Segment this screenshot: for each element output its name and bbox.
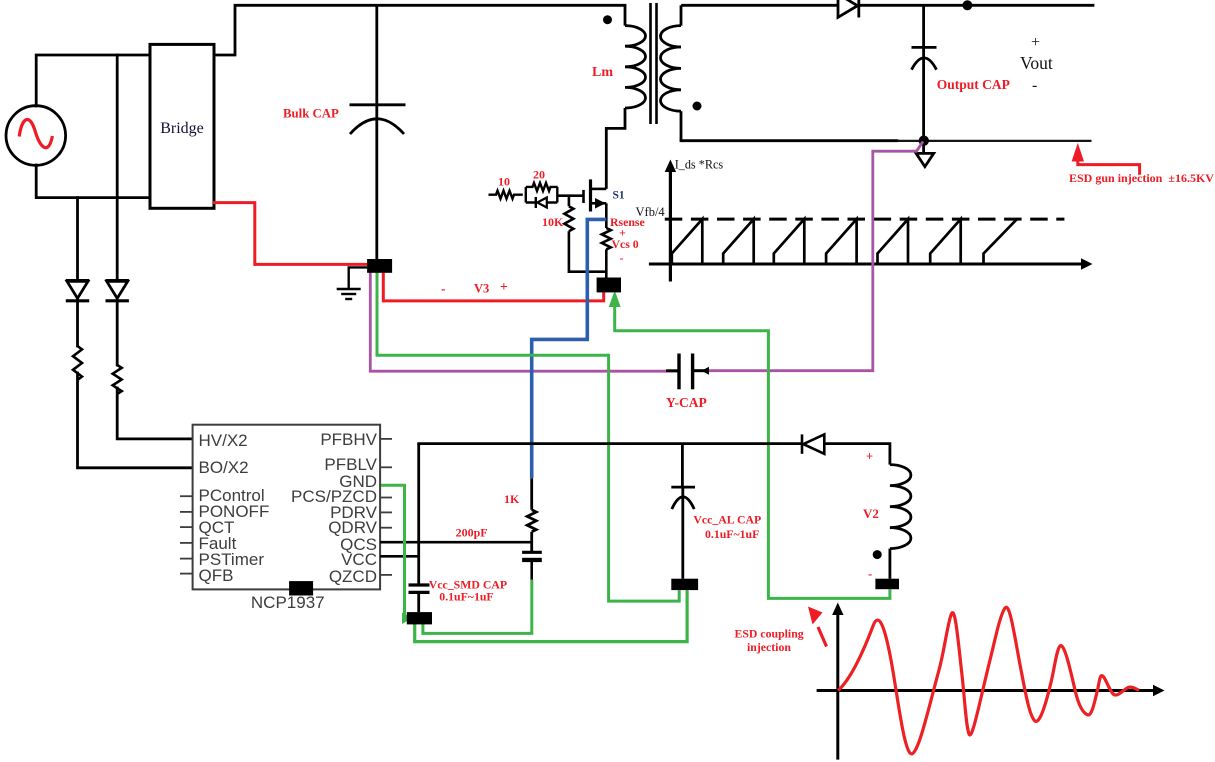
snubber resistor 10 <box>489 191 523 199</box>
wire top rail secondary side <box>683 4 837 7</box>
wire AC bottom to bridge <box>36 165 150 198</box>
snubber parallel R20/diode <box>526 183 558 208</box>
ring wave plot axes <box>817 613 1155 760</box>
svg-text:+: + <box>866 450 873 464</box>
IC pin stubs right <box>380 439 392 575</box>
IC bottom pad <box>289 581 313 595</box>
red wire bridge to bulk pad <box>213 203 367 265</box>
wire diode1 to resistor to BO/X2 <box>76 300 79 346</box>
transformer core <box>651 3 657 124</box>
wire bridge to top rail <box>214 5 625 55</box>
svg-text:-: - <box>620 251 624 265</box>
bridge rectifier <box>150 44 214 208</box>
wire bottom rail secondary <box>681 139 897 142</box>
Y-CAP <box>666 354 709 390</box>
green wire SMD pad to AL pad <box>415 590 687 642</box>
output capacitor <box>912 5 937 140</box>
svg-text:ESD gun injection ±16.5KV: ESD gun injection ±16.5KV <box>1069 171 1214 185</box>
wire VCC vertical <box>417 444 420 585</box>
svg-text:Bulk CAP: Bulk CAP <box>283 107 339 121</box>
svg-text:-: - <box>441 281 446 296</box>
svg-text:Lm: Lm <box>592 65 613 80</box>
svg-text:Vcs 0: Vcs 0 <box>612 237 639 251</box>
svg-text:200pF: 200pF <box>456 526 488 540</box>
Vcc rail top wire <box>417 442 802 445</box>
svg-text:injection: injection <box>747 640 791 654</box>
sawtooth teeth <box>672 219 1017 264</box>
bulk pad ground <box>337 267 367 299</box>
wire AC top to bridge <box>36 55 150 106</box>
svg-text:Vcc_AL CAP: Vcc_AL CAP <box>693 513 761 527</box>
secondary dot <box>693 102 702 111</box>
node dot output gnd <box>919 136 929 146</box>
NCP1937 IC box <box>193 425 381 590</box>
svg-text:HV/X2: HV/X2 <box>199 431 248 450</box>
ground output (triangle) <box>916 141 934 167</box>
svg-text:10K: 10K <box>542 215 564 229</box>
svg-text:QZCD: QZCD <box>329 567 377 586</box>
bulk pad (black rect) <box>367 259 392 273</box>
resistor R_a (left vertical zigzag) <box>73 346 82 380</box>
inductor V2 <box>890 465 911 549</box>
Vcc diode D4 (points left) <box>802 434 824 453</box>
AC sine symbol <box>19 119 52 147</box>
svg-text:1K: 1K <box>504 492 520 506</box>
diode D1 (left) <box>66 281 89 301</box>
green wire Rsense pad to V2 pad <box>615 297 890 598</box>
output diode D3 <box>838 0 859 18</box>
wire tap x117 vertical <box>116 55 119 279</box>
svg-text:-: - <box>868 567 872 581</box>
svg-text:QFB: QFB <box>199 566 234 585</box>
purple wire Y-cap net <box>370 142 923 372</box>
svg-text:ESD coupling: ESD coupling <box>735 627 804 641</box>
svg-text:S1: S1 <box>613 190 625 202</box>
wire diode2 to resistor to HV/X2 <box>116 300 119 365</box>
svg-text:-: - <box>1032 77 1037 94</box>
AL pad <box>671 579 698 590</box>
svg-text:V3: V3 <box>474 282 489 296</box>
MOSFET S1 <box>589 179 592 211</box>
transformer T1 primary <box>606 5 645 189</box>
svg-text:Vout: Vout <box>1020 53 1053 73</box>
resistor R_b (right vertical zigzag) <box>113 365 122 394</box>
IC pin stubs left <box>180 496 193 573</box>
svg-text:10: 10 <box>498 175 510 189</box>
svg-text:0.1uF~1uF: 0.1uF~1uF <box>705 527 759 541</box>
wire diode to V2 <box>824 444 890 465</box>
MOSFET arrow <box>595 198 606 209</box>
transformer T1 secondary <box>660 5 681 140</box>
svg-text:BO/X2: BO/X2 <box>199 458 249 477</box>
dashed Vfb/4 level <box>665 218 1065 221</box>
Rsense pad (black rect) <box>597 278 621 293</box>
resistor 10K <box>564 196 606 272</box>
svg-text:PFBHV: PFBHV <box>320 430 377 449</box>
SMD pad <box>407 612 432 624</box>
green wire GND pin to SMD pad <box>381 485 405 618</box>
node dot top rail <box>962 0 972 10</box>
ESD coupling arrow <box>818 627 827 647</box>
svg-text:20: 20 <box>533 168 545 182</box>
svg-text:Bridge: Bridge <box>160 120 204 137</box>
wire VCC pin <box>380 555 419 558</box>
wire tap x77 vertical <box>76 198 79 279</box>
svg-text:Output CAP: Output CAP <box>937 77 1010 92</box>
svg-text:V2: V2 <box>863 506 879 521</box>
Vcc_SMD capacitor <box>409 585 430 612</box>
resistor 1K <box>527 478 536 552</box>
wire QCS to 200pF <box>380 541 532 544</box>
bulk capacitor <box>350 5 406 259</box>
svg-text:I_ds *Rcs: I_ds *Rcs <box>675 158 724 172</box>
resistor Rsense <box>602 203 611 277</box>
V2 pad <box>875 579 899 590</box>
primary dot <box>603 15 612 24</box>
svg-text:+: + <box>500 279 508 294</box>
V2 dot <box>873 550 882 559</box>
AC source V1 <box>6 106 66 166</box>
svg-text:Y-CAP: Y-CAP <box>666 395 707 410</box>
blue wire Vcs to 1K <box>532 219 607 478</box>
Vcc_AL capacitor <box>671 444 695 579</box>
wire bottom rail right thin <box>897 140 1092 142</box>
svg-text:0.1uF~1uF: 0.1uF~1uF <box>439 590 493 604</box>
red wire V3 <box>383 266 603 301</box>
diode D2 (right) <box>106 281 129 301</box>
capacitor 200pF <box>522 551 542 554</box>
svg-text:+: + <box>1031 34 1040 51</box>
ring wave (damped oscillation) <box>838 607 1139 754</box>
ESD gun injection arrow <box>1078 158 1140 175</box>
svg-text:NCP1937: NCP1937 <box>251 593 325 612</box>
svg-text:Vfb/4: Vfb/4 <box>636 205 666 219</box>
green wire bulk pad to Vcc_AL pad <box>377 266 679 601</box>
green wire 200pF bottom to SMD pad <box>423 580 532 634</box>
sawtooth plot axes <box>649 170 1083 282</box>
